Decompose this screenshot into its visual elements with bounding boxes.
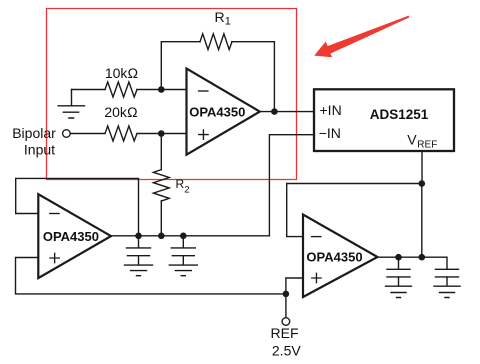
node: VREF / feedback junction [419,180,426,187]
wire: R1 feedback left leg [161,42,200,90]
wire: 10k resistor to op-amp U1 minus input [137,89,187,91]
capacitor C3 [387,257,410,277]
ground (input divider) [58,90,84,119]
ground (C1) [125,256,153,276]
input terminal circle [63,130,71,138]
wire: R2 bottom stem to analog rail [160,201,162,236]
node: U1 plus input junction [158,130,165,137]
wire: U3 output rail [378,257,448,269]
wire: ground to 10k resistor [72,89,106,91]
resistor 10kΩ [105,82,137,97]
svg-text:2.5V: 2.5V [272,342,301,358]
svg-text:OPA4350: OPA4350 [306,250,362,265]
svg-text:10kΩ: 10kΩ [105,65,139,81]
ground (C2) [169,256,197,276]
wire: input terminal to 20k resistor [70,133,105,135]
node: U1 minus input junction [158,86,165,93]
node: rail junction (feedback) [419,254,426,261]
svg-text:OPA4350: OPA4350 [189,104,245,119]
wire: U2 feedback (minus to rail) [16,178,139,235]
wire: VREF pin [421,151,423,184]
node: REF junction [283,291,290,298]
ADS1251 U4 [314,89,454,151]
wire: VREF node down to U3 output rail [421,184,423,258]
wire: U2 plus input from REF rail [16,258,286,294]
red annotation arrow [314,16,409,58]
svg-text:1: 1 [225,16,231,28]
REF terminal circle [282,318,290,326]
svg-text:20kΩ: 20kΩ [104,104,138,120]
capacitor C4 [436,269,459,277]
svg-text:Input: Input [24,142,55,158]
node: rail junction (C3) [395,254,402,261]
svg-text:REF: REF [271,325,299,341]
wire: U1 output to ADS1251 +IN [260,111,314,113]
wire: 20k resistor to op-amp U1 plus input [137,133,187,135]
svg-text:V: V [407,132,417,148]
svg-text:−IN: −IN [319,125,341,141]
node: rail junction (R2) [158,233,165,240]
label: REF 2.5V [271,325,302,358]
wire: R2 top stem [160,134,162,170]
label R1 [215,9,231,28]
svg-text:2: 2 [184,184,189,195]
svg-text:Bipolar: Bipolar [12,125,56,141]
label: Bipolar Input [12,125,56,158]
svg-text:R: R [215,9,225,25]
svg-text:ADS1251: ADS1251 [370,107,429,122]
node: rail junction (C2) [180,233,187,240]
svg-text:REF: REF [417,139,437,150]
capacitor C2 [171,236,195,256]
svg-text:+IN: +IN [320,102,342,118]
wire: U3 feedback (minus to VREF node) [287,184,422,237]
resistor 20kΩ [105,126,137,141]
wire: R1 feedback right leg to U1 output [232,42,275,112]
resistor R1 [200,34,232,50]
red highlight box [47,9,297,180]
node: rail junction (feedback / C1) [135,233,142,240]
ground (C4) [434,277,460,298]
op-amp U2 OPA4350 [38,194,111,278]
capacitor C1 [127,236,151,256]
wire: ADS1251 -IN to analog rail [269,135,314,236]
wire: U3 plus input [286,278,303,294]
op-amp U3 OPA4350 [303,215,378,298]
node: U1 output [271,108,278,115]
wire: U2 output rail [111,235,269,237]
svg-text:R: R [176,177,185,191]
op-amp U1 OPA4350 [187,69,260,155]
resistor R2 [153,170,169,201]
svg-text:OPA4350: OPA4350 [43,229,99,244]
ground (C3) [386,277,412,298]
wire: REF stem [285,294,287,318]
label R2 [176,177,190,195]
